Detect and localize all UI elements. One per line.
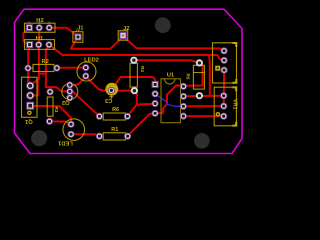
- svg-text:R5: R5: [186, 74, 191, 80]
- svg-text:Q2: Q2: [62, 99, 70, 105]
- wire U1.R3 to VR1.2: [183, 105, 223, 107]
- svg-text:R6: R6: [112, 107, 119, 113]
- resistor R3: [46, 88, 59, 125]
- wire R1.2 to U1.L4: [128, 113, 156, 136]
- wire branch to Q1.2: [30, 81, 38, 96]
- svg-text:U1: U1: [167, 73, 175, 79]
- svg-text:R1: R1: [111, 127, 118, 133]
- wire vertical x209: [208, 55, 211, 95]
- wire P1.3 to VR1.1: [223, 71, 225, 96]
- svg-text:R2: R2: [41, 59, 48, 65]
- mounting hole bottom-right: [194, 133, 210, 149]
- via Q1: [27, 111, 32, 116]
- connector J1: [73, 25, 84, 42]
- svg-text:H2: H2: [36, 18, 43, 24]
- wire H1.3 to R3.1: [46, 47, 49, 88]
- mounting hole bottom-left: [31, 130, 47, 146]
- via VR1: [216, 112, 221, 117]
- wire LED1.2 to R1.1: [75, 134, 100, 136]
- transistor Q1: [22, 77, 38, 124]
- wire J1 to J2: [71, 37, 123, 49]
- wire Q1.3 to LED1.1: [30, 106, 71, 124]
- regulator VR1: [214, 87, 237, 126]
- svg-text:R3: R3: [54, 106, 59, 112]
- wire H1.3 to R4.top: [49, 45, 224, 60]
- svg-text:C3: C3: [104, 97, 112, 103]
- wire H1.2 to Q1.1: [30, 47, 39, 86]
- svg-text:Q1: Q1: [24, 118, 33, 124]
- wire H2.3 to J1: [49, 28, 78, 37]
- connector H2: [25, 18, 56, 32]
- wire R2.2 to LED2.1: [57, 67, 86, 69]
- wire R2.1 to Q1.1: [28, 71, 30, 86]
- board outline: [15, 9, 243, 153]
- wire LED2.2 to C3: [86, 77, 111, 91]
- wire R3.1 to Q2.2: [46, 87, 70, 91]
- wire H2.2 to H1.2: [38, 30, 40, 44]
- via P1 square: [215, 66, 220, 71]
- wire blue U1.L2 to U1.R3: [155, 94, 183, 107]
- svg-text:R4: R4: [140, 66, 145, 72]
- mounting hole top: [155, 17, 171, 33]
- wire H2.1 to H1.1: [23, 29, 29, 46]
- svg-text:LED1: LED1: [57, 139, 73, 145]
- wire H1.1 to R2.1: [28, 47, 29, 68]
- transistor Q2: [62, 81, 78, 105]
- wire jog below R2: [39, 73, 46, 75]
- LED LED2: [77, 57, 99, 81]
- capacitor C3: [104, 83, 118, 103]
- wire Q2.3 to R6.1: [70, 91, 100, 116]
- wire R5.top through U1 to U1.L4: [155, 64, 202, 113]
- svg-text:VR1: VR1: [232, 99, 238, 110]
- svg-text:H1: H1: [36, 36, 44, 42]
- wire C3 to R4.bot: [111, 90, 134, 92]
- wire R4.bot down: [134, 91, 136, 106]
- resistor R4: [130, 57, 145, 95]
- connector H1: [25, 36, 55, 49]
- connector J2: [118, 26, 129, 40]
- LED LED1: [57, 119, 84, 146]
- svg-text:J1: J1: [77, 25, 84, 31]
- resistor R6: [96, 107, 131, 120]
- wire R6.2 to U1.L3: [127, 104, 155, 117]
- op-amp U1: [152, 73, 187, 123]
- wire U1.R2 to VR1.1: [183, 95, 223, 97]
- svg-text:LED2: LED2: [84, 57, 99, 63]
- wire R4.top to R5.top: [134, 60, 200, 63]
- wire LED2.2 to Q2.1: [70, 76, 86, 85]
- wire U1.R4 to VR1.3: [183, 115, 223, 117]
- resistor R2: [24, 59, 60, 72]
- svg-text:J2: J2: [123, 26, 129, 32]
- wire R3.2 to LED1.1: [50, 121, 72, 124]
- resistor R5: [186, 59, 205, 99]
- resistor R1: [96, 127, 131, 140]
- wire J2 to P1.1: [124, 37, 225, 51]
- connector P1: [213, 43, 237, 83]
- wire C3 to U1.L1: [112, 77, 156, 90]
- wire VR1.1 to VR1.2: [223, 96, 225, 106]
